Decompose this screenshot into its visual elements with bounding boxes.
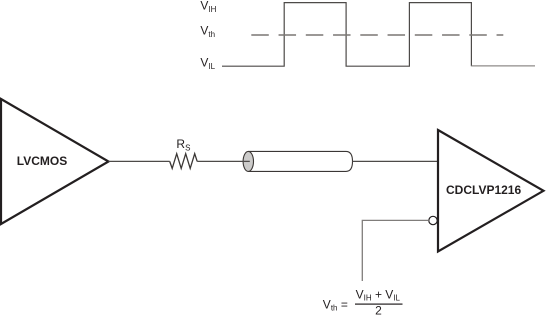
svg-text:CDCLVP1216: CDCLVP1216 xyxy=(446,183,521,197)
svg-text:VIH + VIL: VIH + VIL xyxy=(356,287,401,302)
transmission line T1 (left end cap ellipse) xyxy=(243,151,253,171)
svg-text:2: 2 xyxy=(375,304,382,316)
svg-text:VIL: VIL xyxy=(200,55,215,70)
waveform tail xyxy=(471,65,535,67)
inversion bubble on inverting input xyxy=(429,216,437,224)
resistor RS xyxy=(170,137,198,169)
svg-text:Vth: Vth xyxy=(200,24,215,39)
wire from U1 output to resistor xyxy=(109,160,170,162)
svg-text:RS: RS xyxy=(176,137,190,153)
wire from Vth node to inverting input xyxy=(362,220,429,281)
wire from transmission line to receiver input xyxy=(353,160,438,162)
svg-text:Vth =: Vth = xyxy=(323,297,348,312)
threshold dashed line Vth xyxy=(251,34,503,36)
receiver U2 CDCLVP1216 xyxy=(438,130,544,252)
svg-text:VIH: VIH xyxy=(200,0,216,14)
node Vth formula: fraction bar xyxy=(355,304,403,305)
transmission line T1 (cylinder body) xyxy=(248,151,352,171)
svg-text:LVCMOS: LVCMOS xyxy=(17,154,67,168)
buffer U1 LVCMOS xyxy=(1,99,109,224)
waveform square wave xyxy=(222,3,471,67)
wire from resistor to transmission line xyxy=(197,160,250,162)
